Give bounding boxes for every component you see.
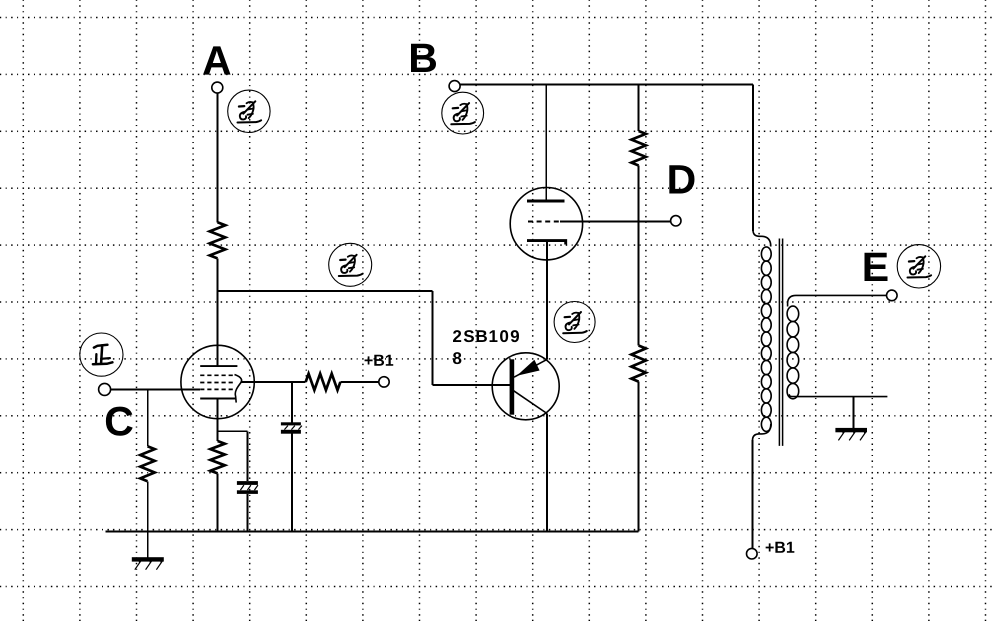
- label +B1 (bottom): [766, 542, 795, 553]
- phase mark (inverted) at B: [442, 92, 484, 134]
- wire A to R1: [217, 93, 219, 222]
- wire to Q1 base: [432, 384, 509, 386]
- T1 primary winding: [761, 247, 771, 261]
- wire B to V2 plate: [545, 85, 547, 201]
- V1 cathode curve: [235, 375, 242, 403]
- terminal +B1 (mid): [379, 377, 389, 387]
- capacitor C2 (cathode bypass): [237, 481, 258, 485]
- T1 secondary winding: [787, 306, 799, 321]
- wire Q1 collector to bus: [546, 414, 548, 532]
- transistor Q1 envelope: [492, 353, 559, 420]
- phase mark (inverted) at E: [897, 245, 940, 288]
- wire C2 to bus: [246, 494, 248, 532]
- phase mark (normal) at C: [80, 333, 123, 376]
- phase mark (inverted) at Q1: [554, 302, 595, 343]
- wire V1 cathode down: [217, 399, 219, 442]
- label +B1 (mid): [365, 355, 394, 366]
- triode V1 envelope: [181, 345, 254, 418]
- T1 primary top lead: [753, 230, 771, 247]
- tube V2 envelope: [510, 188, 582, 260]
- wire B to R5: [638, 85, 640, 131]
- wire V1 grid2 to R4: [241, 381, 306, 383]
- terminal +B1 (bottom): [747, 548, 758, 559]
- node B label: [411, 44, 436, 72]
- node A label: [203, 46, 231, 74]
- wire junction to phase-link: [217, 290, 433, 292]
- wire R6 to bus: [638, 382, 640, 532]
- wire C3 to bus: [291, 434, 293, 532]
- wire link down: [431, 291, 433, 385]
- T1 core: [779, 239, 782, 446]
- resistor R5: [631, 131, 645, 166]
- wire C to V1 grid: [111, 389, 200, 391]
- resistor R3 (cathode): [210, 441, 224, 473]
- label 8: [453, 352, 461, 364]
- wire V2 cathode to Q1 emitter: [546, 242, 548, 359]
- ground (input): [132, 557, 164, 561]
- wire R3 to bus: [217, 473, 219, 531]
- node D label: [669, 165, 694, 193]
- phase mark (inverted) at A: [228, 90, 270, 132]
- Q1 emitter line: [514, 359, 547, 377]
- wire R4 to +B1: [340, 381, 378, 383]
- wire T1 primary to +B1: [752, 440, 754, 548]
- V1 grid (dashed): [200, 375, 234, 389]
- wire secondary to ground: [852, 397, 854, 428]
- terminal D: [671, 216, 681, 226]
- wire cathode branch: [218, 430, 248, 432]
- terminal E: [887, 290, 898, 301]
- resistor R6: [631, 346, 645, 382]
- V2 grid (dashed): [528, 220, 560, 222]
- T1 primary bottom lead: [753, 424, 771, 441]
- T1 secondary top lead: [788, 295, 887, 306]
- terminal A: [212, 82, 223, 93]
- label 2SB109: [453, 330, 519, 342]
- terminal C: [99, 383, 111, 395]
- V1 plate: [200, 365, 237, 367]
- ground bus: [105, 530, 638, 532]
- T1 secondary bottom lead: [789, 395, 887, 397]
- Q1 emitter arrow (PNP): [517, 360, 540, 376]
- phase mark (inverted) mid link: [329, 243, 372, 286]
- wire R2 to ground: [147, 481, 149, 557]
- node C label: [106, 407, 133, 436]
- capacitor C3 (decoupling): [281, 422, 301, 425]
- ground (secondary): [835, 428, 867, 432]
- resistor R4 (dropping): [306, 374, 341, 390]
- wire R5 to R6: [638, 166, 640, 346]
- wire decouple drop: [291, 382, 293, 422]
- V1 cathode: [200, 398, 236, 400]
- V2 cathode bar: [527, 241, 566, 245]
- node E label: [865, 253, 888, 281]
- resistor R2 (grid leak): [140, 446, 154, 481]
- Q1 base bar: [510, 359, 515, 414]
- Q1 collector line: [513, 390, 547, 413]
- terminal B: [449, 81, 460, 92]
- wire branch down to C2: [246, 431, 248, 481]
- V2 plate bar: [527, 200, 565, 203]
- wire grid-leak drop: [147, 390, 149, 447]
- wire R1 to V1 plate: [217, 258, 219, 366]
- wire V2 grid to D: [560, 220, 671, 222]
- resistor R1 (node A branch): [210, 222, 226, 258]
- wire B rail to T1 primary: [752, 85, 754, 231]
- wire B rail: [460, 84, 753, 86]
